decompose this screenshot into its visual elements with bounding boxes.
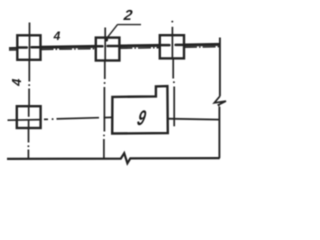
svg-text:4: 4: [9, 78, 24, 87]
svg-text:4: 4: [53, 29, 61, 43]
